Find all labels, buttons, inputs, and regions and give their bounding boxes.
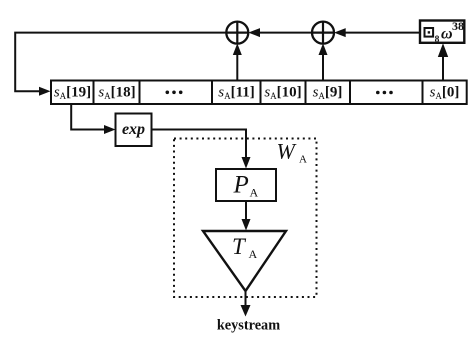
TA triangle <box>203 231 286 291</box>
cell divider 2 <box>139 81 141 105</box>
cell divider 4 <box>260 81 262 105</box>
dotted region WA <box>174 139 317 298</box>
svg-text:A: A <box>249 247 258 261</box>
cell divider 6 <box>349 81 351 105</box>
cell divider 3 <box>211 81 213 105</box>
svg-text:A: A <box>250 186 259 200</box>
XOR gate A1 <box>226 22 248 44</box>
arrowhead into XOR A2 <box>334 28 346 37</box>
svg-text:keystream: keystream <box>217 318 280 334</box>
PA box <box>216 169 276 201</box>
cell divider 5 <box>305 81 307 105</box>
arrowhead into PA box <box>242 157 251 169</box>
ellipsis cell left <box>166 91 183 95</box>
tap wire from sA[9] up to XOR A2 <box>322 52 324 81</box>
cell divider 7 <box>422 81 424 105</box>
svg-text:sA[0]: sA[0] <box>430 85 460 102</box>
wire from exp box to PA box <box>152 130 247 159</box>
arrowhead into exp box <box>104 125 116 134</box>
exp box <box>116 114 152 147</box>
multiplier box (field multiply by omega^38) <box>420 21 464 43</box>
arrowhead into register input <box>39 87 51 96</box>
boxed-dot operator symbol <box>425 28 434 37</box>
svg-text:sA[11]: sA[11] <box>218 85 255 102</box>
svg-text:sA[18]: sA[18] <box>98 85 135 102</box>
arrowhead into multiplier box bottom <box>438 43 448 57</box>
tap wire from sA[11] up to XOR A1 <box>236 52 238 81</box>
svg-text:P: P <box>233 172 249 199</box>
svg-text:38: 38 <box>452 19 464 33</box>
svg-text:T: T <box>232 234 247 259</box>
svg-text:exp: exp <box>122 121 145 138</box>
arrowhead keystream <box>241 305 251 317</box>
svg-text:ω: ω <box>441 25 453 42</box>
svg-text:sA[10]: sA[10] <box>264 85 301 102</box>
wire: XOR A2 to XOR A1 <box>258 32 313 34</box>
cell divider 1 <box>93 81 95 105</box>
svg-text:A: A <box>299 154 307 166</box>
tap wire from sA[0] up to multiplier box <box>442 53 444 81</box>
arrowhead into XOR A1 bottom <box>233 43 242 55</box>
ellipsis cell right <box>376 91 393 95</box>
register box <box>51 81 467 105</box>
svg-text:sA[9]: sA[9] <box>313 85 343 102</box>
wire: feedback from XOR A1 left to register input <box>15 33 226 92</box>
arrowhead into XOR A2 bottom <box>319 43 328 55</box>
output wire from TA apex <box>245 291 247 308</box>
svg-text:W: W <box>277 139 297 164</box>
arrow PA box to TA triangle <box>245 201 247 222</box>
svg-text:8: 8 <box>435 35 440 45</box>
wire: multiplier box to XOR A2 <box>343 32 420 34</box>
XOR gate A2 <box>312 22 334 44</box>
wire from sA[19] down to exp box <box>71 104 105 130</box>
arrowhead into TA <box>242 219 251 231</box>
svg-text:sA[19]: sA[19] <box>54 85 91 102</box>
arrowhead into XOR A1 <box>248 28 260 37</box>
